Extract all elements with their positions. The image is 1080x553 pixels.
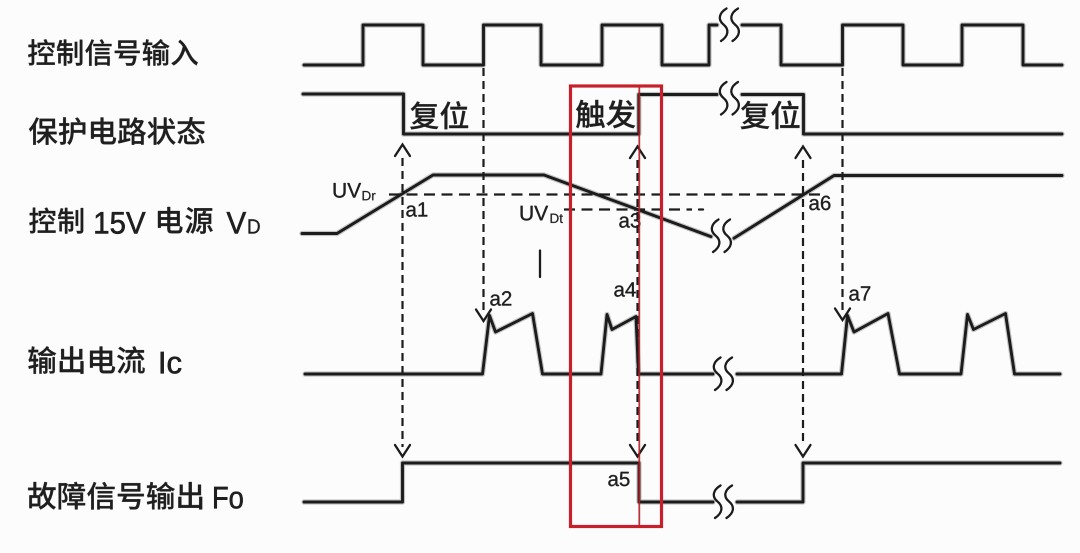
- red highlight box around trigger interval: [571, 86, 662, 527]
- waveform row 1: control signal input pulses: [304, 25, 1062, 65]
- dashed timing line at a6 (x=803): [796, 147, 811, 457]
- label: protection circuit state (row 2): [29, 117, 205, 145]
- label: fault signal output Fo (row 5): [28, 482, 243, 510]
- waveform row 5: fault signal output Fo: [304, 463, 1060, 502]
- break symbol row 4: [714, 358, 733, 391]
- red inner vertical line at trigger instant: [638, 88, 640, 526]
- stray tick mark: [539, 251, 541, 278]
- text: trigger (chufa): [576, 100, 635, 128]
- dashed timing line at a1 (x=402.5): [395, 145, 410, 457]
- node label a1: [406, 202, 427, 216]
- break symbol row 5: [714, 486, 733, 519]
- dashed timing line at a3/a4/a5 (x=637.5): [630, 147, 645, 457]
- waveform row 3: VD supply voltage: [302, 175, 1062, 238]
- UVDr threshold dashed line: [389, 193, 822, 195]
- break symbol row 1: [720, 9, 739, 42]
- label: control signal input (row 1): [28, 39, 198, 66]
- node label a7: [849, 286, 870, 300]
- label: output current Ic (row 4): [28, 346, 181, 373]
- waveform row 2: protection circuit state: [303, 94, 1062, 134]
- dashed timing line at a7 (x=842.5): [835, 68, 850, 320]
- text: reset (fuwei) #2: [741, 101, 800, 130]
- node label a3: [619, 213, 640, 228]
- dashed timing line at a2 (x=483.5): [476, 68, 491, 321]
- node label a4: [614, 282, 635, 296]
- waveform row 4: output current Ic with spikes: [305, 314, 1060, 375]
- node label a6: [809, 196, 830, 211]
- UVDr label: [334, 183, 376, 200]
- node label a5: [608, 472, 629, 486]
- UVDt threshold dashed line: [564, 208, 703, 210]
- break symbol row 2: [720, 82, 739, 115]
- node label a2: [490, 291, 511, 306]
- text: reset (fuwei) #1: [410, 101, 468, 129]
- label: control 15V supply VD (row 3): [29, 207, 259, 234]
- UVDt label: [521, 206, 563, 223]
- break symbol row 3: [712, 220, 731, 253]
